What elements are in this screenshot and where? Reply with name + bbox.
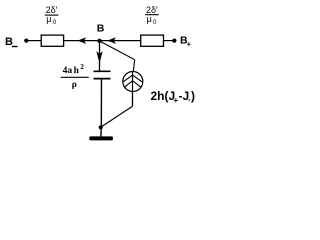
wire R1 to node B [64,40,100,42]
node B+ terminal dot [172,39,176,43]
svg-text:0: 0 [53,19,57,26]
current source I1 circle [123,72,143,92]
current source I1 lower chevron [124,81,141,87]
node B_ subscript dash [12,46,18,47]
wire node B down to capacitor C1 [99,41,101,72]
wire bend down to current source top [133,60,134,72]
resistor R2 (2δ'/μ0) box [141,35,164,46]
svg-text:4a: 4a [63,66,73,76]
current source I1 axis line [132,72,134,92]
ground junction dot [99,125,103,129]
svg-text:B: B [97,23,105,35]
resistor R1 value label 2δ'/μ0 [45,5,59,26]
current arrow pointing down on capacitor branch [96,51,102,63]
svg-text:ρ: ρ [72,80,77,90]
svg-text:0: 0 [153,19,157,26]
node B_ terminal dot [24,39,28,43]
capacitor C1 top plate [94,70,111,72]
svg-text:2h(J: 2h(J [151,89,176,103]
resistor R1 (2δ'/μ0) box [41,35,63,46]
capacitor C1 bottom plate [94,78,111,80]
svg-text:h: h [74,66,80,76]
wire node B to resistor R2 [100,40,141,42]
current arrow pointing left on right wire [107,37,116,44]
svg-text:B: B [5,36,13,48]
wire current source bottom down [132,91,134,106]
svg-text:2: 2 [80,63,84,71]
current source I1 value label 2h(J+-J-) [151,89,196,105]
capacitor C1 value label 4ah²/ρ [61,63,89,90]
current arrow pointing left on left wire [78,37,87,44]
wire diagonal to ground junction [101,106,133,127]
node B dot [97,39,101,43]
ground symbol bar [89,136,113,140]
svg-text:+: + [187,40,192,49]
wire B_ dot to resistor R1 [26,40,41,42]
resistor R2 value label 2δ'/μ0 [145,5,159,26]
svg-text:μ: μ [147,14,152,24]
svg-text:): ) [191,89,195,103]
wire R2 to B+ terminal [164,40,175,42]
svg-text:μ: μ [46,14,51,24]
wire capacitor C1 to ground junction [100,79,103,137]
current source I1 upper chevron [123,75,142,82]
wire node B to current source (diagonal) [100,41,135,60]
